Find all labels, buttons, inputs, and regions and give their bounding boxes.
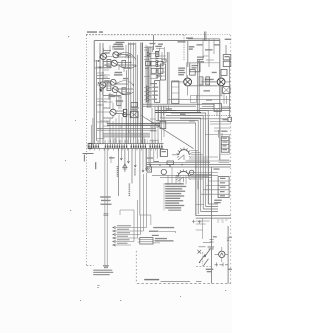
rotary switch SW2 wiper [178,177,184,182]
label amp s8 [110,96,116,97]
wire diagonal 2 [141,115,146,118]
wire end symbols [104,266,109,269]
label tc s1 [150,43,156,44]
label near Q8 [205,72,217,80]
border dashed bottom-left corner [87,264,94,266]
terminal strip ticks [89,144,162,146]
border crop mark left [83,154,94,162]
label trc s4 [214,44,220,45]
label corner tr [225,39,232,40]
label trc s1 [178,41,186,42]
box cluster tc [151,61,163,73]
box M2 [130,112,138,118]
caption line [161,280,202,282]
box X2 [223,87,230,94]
plus marks [192,220,201,224]
label parts list [165,186,186,209]
motor M symbol [219,251,225,257]
frame inner left [96,60,98,141]
frame solid right [219,41,221,160]
bus h dark 124 [107,124,160,126]
wire f h [205,122,231,135]
wire bus dark pair [141,43,143,144]
terminal strip feeders [98,138,158,144]
wire v far right low [227,226,229,284]
break ticks right [227,238,230,240]
label trc s3 [205,49,213,50]
dash column left of U2 [156,52,159,77]
wire amp h3 [103,108,130,118]
rotary switch SW2 contacts [176,169,191,179]
wire pair tc [167,52,169,104]
wire v lower right [211,167,213,284]
resistor R5 [122,60,126,67]
label e s3 [189,120,195,121]
stair bottom corners [201,204,218,212]
stair left stubs [159,106,169,121]
label tc [155,46,162,47]
label parts heading [165,183,184,184]
wire amp arc4 [117,91,134,95]
resistor R6 [123,109,126,114]
wire Q7 leads [172,75,188,95]
label J1 top [222,131,228,132]
wire h drop parts [168,167,186,185]
diode D1 [147,52,151,56]
wire e stub [150,119,159,141]
label trc s2 [197,44,203,45]
wire k pins [138,239,160,243]
label +12V [189,46,195,50]
tick on vertical pair [104,214,109,215]
bus h 134 [103,133,150,137]
terminal strip rails [88,143,164,149]
wire trc v [203,39,214,67]
wire tc mesh low [144,88,152,100]
wire amp h1 [103,51,136,66]
resistor R7 [156,51,159,56]
wire amp mesh2 [97,67,110,122]
transistor Q4 [112,87,118,93]
wire bc riser [140,215,151,225]
box G2 [160,149,167,156]
wire tc horizontals [144,48,166,79]
box pair above Q8 [221,69,227,75]
wire drop d2 [124,148,126,172]
wire e verticals [152,106,164,144]
wire f v [214,93,226,115]
border dashed right [230,35,232,283]
wire strip drops2 [110,114,126,143]
wire h verticals [146,148,149,171]
wire crossing h [146,165,231,167]
wire rail B [102,43,104,144]
border dashed top [86,34,231,36]
strip feeders dense [108,140,161,144]
box U4 tall [155,81,160,103]
wire amp arc1 [117,52,136,60]
ticks below bus [217,220,228,222]
node dots h [159,164,196,168]
wire j riser [120,210,134,215]
wire SW2 rays [190,172,212,179]
label g v3 [134,169,136,176]
label amp top [113,44,125,50]
wire bc row2 link [159,231,176,233]
rotary switch SW1 contacts [177,147,192,157]
transistor Q7 power [184,78,192,86]
wire y242 link [203,241,212,243]
label h s1 [147,157,153,158]
bus h right 108 [200,109,231,111]
node dots leftcol [98,60,101,84]
label g s2 [95,162,96,169]
label amp low [116,100,124,101]
label amp s6 [104,80,110,81]
label vertical v2 [129,184,131,197]
wire top right across [188,39,220,42]
label g s1 [109,157,115,158]
wire drop d4 [139,148,141,215]
wire h cross3 [146,161,231,162]
box stacked right1 [223,55,231,60]
label bc row2 [149,231,159,232]
wire Q8 leads [210,75,231,95]
wire tc verticals [146,45,165,103]
label under J2 [214,200,222,204]
border dashed notch vertical [135,251,137,284]
transistor Q5 [110,109,116,115]
tick marks v lower [210,240,214,243]
box end cap [228,117,231,121]
wire right verticals low [134,173,147,242]
caption text [144,279,159,280]
wire bus c2 [147,46,151,108]
label e s1 [166,108,172,109]
wire long vertical pair [105,148,107,265]
label amp s7 [126,92,131,93]
wire amp h2 [97,79,134,102]
label tc pair [168,210,181,211]
label bc row3 [155,238,174,242]
bus h 103 [143,104,214,106]
wire diagonal main [146,118,194,148]
label bc row1 [153,227,174,228]
box U3 tall [172,81,179,104]
lamp marks [198,250,202,254]
box U2 tall [160,59,166,80]
parts list left rule [163,183,165,211]
label bus top [128,43,135,44]
transistor Q6 small [123,113,127,117]
wire amp drops [110,93,126,110]
label tc s5 [150,83,157,84]
label above top border [87,31,103,33]
resistor R4 [107,83,111,91]
label amp s3 [126,67,131,68]
label amp s1 [104,52,110,53]
label i s2 [214,168,220,169]
wire l rows [196,218,210,239]
wire left partials [91,118,93,144]
label amp mid [114,72,123,76]
terminal strip numbers [88,146,162,148]
label tc s4 [157,75,163,76]
box stacked right2 [223,61,231,66]
label tr2 [186,37,193,38]
label M1 [130,107,139,110]
wire i h [196,157,218,205]
wire J1 feeds [219,130,230,163]
wire amp diag [109,52,125,97]
label right of x228 [229,237,232,238]
box bc connector [140,238,153,244]
wire crossing h2 [152,175,218,177]
diode D2 [123,164,127,169]
border dashed left [86,35,88,265]
wire g drops mid [121,148,160,172]
wire tr horizontals [191,82,231,107]
label h s2 [154,161,159,162]
switch S2 blade [199,255,205,263]
stair bus L-wires [151,111,208,216]
wire mesh d2 [107,118,144,144]
frame solid top [94,40,220,42]
bus h dark 111 [155,111,201,113]
label br1 [206,269,214,273]
label audio rows [178,68,185,76]
border dashed bottom [137,283,231,285]
label above tick [101,200,112,205]
box below Q7 [191,96,197,103]
dashed link y266 [196,265,211,267]
box H2 [167,161,174,165]
transistor Q3 [110,79,116,85]
transistor Q8 power [217,78,225,86]
node dots amp [99,56,103,91]
wire drop d1 [118,148,120,196]
label right col top [197,57,204,63]
rotary switch SW1 arc [179,150,189,155]
pot P1 circle [161,169,166,174]
label amp s4 [104,64,110,65]
wire J2 stubs [201,181,218,194]
wire bus c1 [126,43,137,144]
label under strip [100,196,111,197]
box low right [214,104,222,112]
label e s2 [180,114,186,115]
box above Q7 [190,70,196,76]
label f s1 [223,119,229,120]
box IC U5 [190,63,200,72]
rotary switch SW1 wiper [172,155,184,160]
frame solid left [93,41,95,144]
wire amp arc3 [116,81,133,85]
connector J2 [218,177,229,198]
label tc s2 [158,44,163,45]
terminal strip understubs [90,148,161,150]
label k s2 [152,235,159,236]
wire amp stub row [104,45,126,102]
box H1 [147,167,152,172]
box G1 [160,121,166,128]
wire g x111 [110,156,112,163]
wire tr verticals [198,45,230,117]
resistor R3 [117,101,121,105]
wire vertical tr [187,41,189,67]
connector J1 [221,137,229,152]
switch S3 blade [203,259,208,266]
wire drop d3 [131,148,133,183]
wire amp leftcol [94,48,113,95]
bus h 129 [97,128,156,130]
bus h right 116 dashed [185,115,231,117]
bus line y99 [168,99,231,101]
enclosure outline [187,63,220,86]
rotary switch SW2 arc [178,171,189,176]
wire amp arc2 [117,64,136,69]
label amp s2 [126,55,131,56]
label br2 [228,269,232,270]
label tc s3 [145,68,150,69]
speckles [65,36,226,301]
connector J1 outer [220,135,230,155]
transistor Q3L [100,82,106,88]
label vertical v1 [117,166,119,177]
box X1 [199,77,209,85]
label frame topleft [116,42,125,46]
label i s1 [198,180,199,189]
wire h right 119 [180,118,228,120]
signal arrow labels [117,225,131,244]
bus h 216 [196,216,231,219]
wire mesh d1 [97,99,110,139]
box M1 [131,102,137,107]
label switch rows [208,246,215,249]
box K1 [146,61,151,65]
transistor Q1 [113,52,119,58]
transistor Q2 [111,60,117,66]
switch S1 blade [204,249,210,258]
resistor R1 [107,60,111,67]
arrow ends g [120,158,151,172]
transistor Q1L [100,53,106,59]
wire stub from border [153,35,155,50]
resistor R2 [122,88,126,95]
transistor Q10 [189,170,194,175]
diode column D5 [147,86,150,102]
wire i v extras [196,120,209,216]
dash-dot drop [202,252,204,266]
wire SW1 rays [187,151,209,162]
box M3 [124,109,127,116]
label F1 [213,236,217,237]
wire rail A [99,43,101,144]
signal arrows block [113,226,147,246]
cluster dashes bottom right [215,263,229,267]
note block [93,270,113,276]
label amp s5 [123,78,129,79]
scan tone overlay [0,0,232,333]
diode column labels [152,87,158,100]
wire l bottom links [199,247,229,262]
border tick pair [204,32,206,41]
label mid trc [204,90,213,100]
wire dotted drop [183,35,185,60]
node dots amp2 [99,56,136,105]
marks below note [97,286,100,288]
